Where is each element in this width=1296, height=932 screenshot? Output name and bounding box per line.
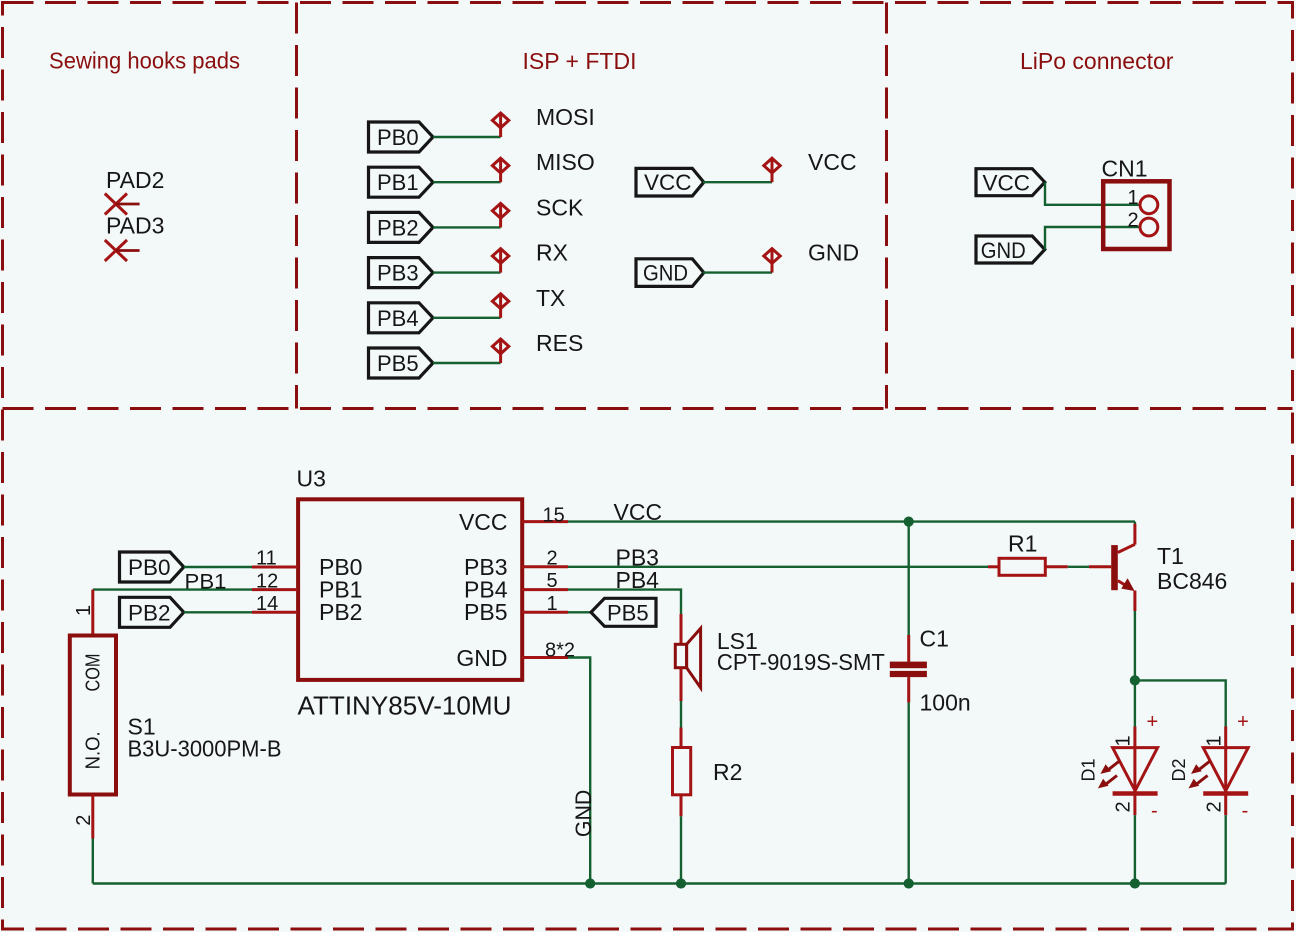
svg-text:+: + bbox=[1147, 711, 1159, 733]
divider horizontal bbox=[3, 407, 1293, 410]
svg-text:1: 1 bbox=[73, 605, 95, 616]
svg-text:VCC: VCC bbox=[808, 149, 857, 175]
svg-text:2: 2 bbox=[73, 815, 95, 826]
svg-text:14: 14 bbox=[256, 593, 278, 615]
wire RES bbox=[433, 362, 501, 364]
flag PB5 (left-pointing) bbox=[591, 598, 656, 626]
svg-text:ATTINY85V-10MU: ATTINY85V-10MU bbox=[298, 693, 512, 721]
U3 pin stub PB1 (12) bbox=[252, 588, 298, 591]
svg-text:GND: GND bbox=[643, 261, 688, 286]
svg-text:1: 1 bbox=[1203, 735, 1225, 746]
D2 emission arrow 2 bbox=[1189, 776, 1208, 789]
D2 bottom stub bbox=[1224, 794, 1227, 816]
wire PB0 bbox=[184, 566, 252, 568]
port pin MOSI bbox=[492, 113, 508, 137]
svg-text:1: 1 bbox=[1128, 187, 1139, 209]
svg-text:VCC: VCC bbox=[983, 171, 1031, 196]
D2 emission arrow 1 bbox=[1191, 761, 1210, 774]
svg-text:CPT-9019S-SMT: CPT-9019S-SMT bbox=[717, 649, 885, 675]
wire TX bbox=[433, 317, 501, 319]
D1 emission arrow 2 bbox=[1098, 776, 1117, 789]
wire D2 to rail bbox=[1224, 815, 1226, 883]
wire PB1 bbox=[93, 588, 252, 590]
resistor R1 bbox=[999, 558, 1045, 575]
wire PB2 bbox=[184, 611, 252, 613]
wire C1 top bbox=[908, 522, 910, 635]
CN1 pin 1 circle bbox=[1140, 196, 1158, 214]
wire R2 to ground rail bbox=[680, 816, 682, 883]
svg-text:SCK: SCK bbox=[536, 194, 584, 220]
wire MOSI bbox=[433, 136, 501, 138]
D2 triangle bbox=[1203, 748, 1248, 791]
wire D1 to rail bbox=[1134, 815, 1136, 883]
svg-text:VCC: VCC bbox=[459, 509, 508, 535]
svg-text:1: 1 bbox=[547, 593, 558, 615]
D2 cathode bar bbox=[1203, 791, 1248, 796]
svg-text:2: 2 bbox=[1128, 210, 1139, 232]
port pin RES bbox=[492, 339, 508, 363]
wire to D1 bbox=[1134, 680, 1136, 726]
svg-text:PB1: PB1 bbox=[377, 170, 419, 195]
port pin MISO bbox=[492, 158, 508, 182]
port pin SCK bbox=[492, 203, 508, 227]
svg-text:PB1: PB1 bbox=[185, 570, 227, 594]
resistor R2 bbox=[673, 748, 691, 795]
R1 left stub bbox=[988, 565, 999, 568]
D1 cathode bar bbox=[1113, 791, 1158, 796]
switch S1 pin 2 stub bbox=[91, 795, 94, 839]
svg-text:11: 11 bbox=[256, 548, 277, 570]
U3 pin stub PB3 (2) bbox=[522, 565, 568, 568]
wire to D2 branch bbox=[1135, 680, 1226, 726]
svg-text:N.O.: N.O. bbox=[82, 731, 105, 769]
svg-text:R2: R2 bbox=[713, 759, 742, 785]
switch S1 pin 1 stub bbox=[91, 590, 94, 636]
port pin VCC (ISP) bbox=[764, 158, 780, 182]
svg-text:PB2: PB2 bbox=[319, 599, 362, 625]
svg-text:+: + bbox=[1237, 711, 1249, 733]
svg-text:PAD2: PAD2 bbox=[106, 167, 164, 193]
R1 right stub bbox=[1045, 565, 1068, 568]
port pin GND (ISP) bbox=[764, 249, 780, 273]
divider vertical 1 bbox=[295, 3, 298, 409]
U3 pin stub PB0 (11) bbox=[252, 566, 298, 569]
T1 emitter bbox=[1118, 578, 1135, 611]
svg-text:PB3: PB3 bbox=[377, 261, 419, 286]
svg-text:PB0: PB0 bbox=[128, 555, 171, 580]
D2 top stub bbox=[1224, 727, 1227, 794]
svg-text:C1: C1 bbox=[920, 625, 949, 651]
T1 collector bbox=[1118, 522, 1135, 553]
flag PB0 (left) bbox=[120, 552, 184, 582]
flag PB5 (ISP) bbox=[369, 348, 434, 378]
junction LED branch bbox=[1130, 675, 1140, 685]
svg-text:LiPo connector: LiPo connector bbox=[1020, 48, 1174, 74]
junction R2/rail bbox=[676, 878, 686, 888]
C1 bottom stub bbox=[907, 677, 910, 703]
flag PB2 (left) bbox=[120, 597, 184, 627]
junction GND/rail bbox=[585, 878, 595, 888]
svg-text:5: 5 bbox=[547, 570, 558, 592]
flag GND (LiPo) bbox=[976, 236, 1045, 263]
wire C1 to ground rail bbox=[908, 703, 910, 884]
svg-text:PB5: PB5 bbox=[464, 599, 507, 625]
U3 pin stub GND (8*2) bbox=[522, 656, 568, 659]
wire GND net bbox=[568, 658, 590, 884]
svg-text:BC846: BC846 bbox=[1157, 568, 1227, 594]
U3 pin stub PB5 (1) bbox=[522, 611, 568, 614]
IC U3 box bbox=[298, 499, 522, 680]
svg-text:D2: D2 bbox=[1169, 758, 1189, 781]
junction D1/rail bbox=[1130, 878, 1140, 888]
svg-text:GND: GND bbox=[571, 790, 596, 838]
junction C1/rail bbox=[904, 878, 914, 888]
svg-text:CN1: CN1 bbox=[1102, 156, 1148, 182]
svg-text:-: - bbox=[1242, 800, 1249, 822]
wire MISO bbox=[433, 181, 501, 183]
svg-text:MOSI: MOSI bbox=[536, 104, 595, 130]
LS1 bottom stub bbox=[680, 668, 683, 701]
svg-text:PB4: PB4 bbox=[377, 306, 419, 331]
LED D2 bbox=[1169, 711, 1249, 884]
svg-text:PB0: PB0 bbox=[377, 125, 419, 150]
svg-text:2: 2 bbox=[1203, 801, 1225, 812]
flag VCC (LiPo) bbox=[976, 169, 1045, 196]
svg-text:-: - bbox=[1151, 800, 1158, 822]
svg-text:1: 1 bbox=[1113, 735, 1135, 746]
wire T1 emitter to LEDs bbox=[1134, 611, 1136, 680]
svg-text:GND: GND bbox=[808, 240, 859, 266]
svg-text:RES: RES bbox=[536, 330, 583, 356]
divider vertical 2 bbox=[885, 3, 888, 409]
CN1 pin 2 circle bbox=[1140, 218, 1158, 236]
svg-text:PB5: PB5 bbox=[607, 600, 649, 625]
svg-text:VCC: VCC bbox=[644, 170, 692, 195]
capacitor C1 plates bbox=[890, 662, 927, 678]
transistor T1 base bar bbox=[1111, 545, 1118, 590]
svg-text:PB2: PB2 bbox=[128, 600, 171, 625]
D1 triangle bbox=[1113, 748, 1158, 791]
svg-text:T1: T1 bbox=[1157, 543, 1184, 569]
connector CN1 box bbox=[1103, 181, 1169, 249]
svg-text:TX: TX bbox=[536, 285, 565, 311]
wire R1 to T1 base bbox=[1068, 566, 1089, 568]
svg-text:RX: RX bbox=[536, 240, 568, 266]
svg-text:ISP + FTDI: ISP + FTDI bbox=[523, 48, 637, 74]
svg-text:12: 12 bbox=[256, 570, 278, 592]
pad PAD3 bbox=[105, 240, 140, 261]
wire PB4 net bbox=[568, 590, 681, 614]
LED D1 bbox=[1079, 711, 1159, 889]
LS1 top stub bbox=[680, 614, 683, 644]
R2 top stub bbox=[680, 728, 683, 748]
D1 emission arrow 1 bbox=[1100, 761, 1119, 774]
svg-text:GND: GND bbox=[981, 238, 1026, 263]
T1 base stub bbox=[1089, 565, 1111, 568]
svg-text:COM: COM bbox=[82, 654, 105, 692]
flag PB2 (ISP) bbox=[369, 212, 434, 242]
switch S1 box bbox=[70, 636, 116, 795]
wire VCC (ISP) bbox=[703, 181, 772, 183]
U3 pin stub VCC (15) bbox=[522, 520, 568, 523]
port pin RX bbox=[492, 249, 508, 273]
wire VCC net bbox=[568, 520, 1135, 522]
C1 top stub bbox=[907, 635, 910, 662]
svg-text:GND: GND bbox=[456, 645, 507, 671]
U3 pin stub PB2 (14) bbox=[252, 611, 298, 614]
wire S1 to ground rail bbox=[92, 839, 94, 884]
wire PB3 net bbox=[568, 566, 988, 568]
svg-text:15: 15 bbox=[543, 504, 565, 526]
svg-text:D1: D1 bbox=[1079, 758, 1099, 781]
D1 top stub bbox=[1133, 727, 1136, 794]
wire GND (ISP) bbox=[703, 271, 772, 273]
svg-text:B3U-3000PM-B: B3U-3000PM-B bbox=[128, 736, 282, 762]
flag PB0 (ISP) bbox=[369, 122, 434, 152]
junction VCC/C1 bbox=[904, 517, 914, 527]
wire LS1 to R2 bbox=[680, 701, 682, 728]
D1 bottom stub bbox=[1133, 794, 1136, 816]
svg-text:PAD3: PAD3 bbox=[106, 213, 164, 239]
svg-text:MISO: MISO bbox=[536, 149, 595, 175]
svg-text:100n: 100n bbox=[920, 690, 971, 716]
wire VCC to CN1 pin1 bbox=[1045, 182, 1140, 205]
svg-text:R1: R1 bbox=[1008, 531, 1037, 557]
flag VCC (ISP) bbox=[636, 168, 704, 196]
wire RX bbox=[433, 271, 501, 273]
svg-text:VCC: VCC bbox=[614, 499, 663, 525]
svg-text:2: 2 bbox=[1113, 801, 1135, 812]
svg-text:Sewing hooks pads: Sewing hooks pads bbox=[49, 48, 240, 74]
flag PB1 (ISP) bbox=[369, 167, 434, 197]
flag PB4 (ISP) bbox=[369, 303, 434, 333]
svg-text:2: 2 bbox=[547, 548, 558, 570]
speaker LS1 bbox=[675, 628, 700, 687]
svg-text:U3: U3 bbox=[297, 466, 326, 492]
svg-text:PB5: PB5 bbox=[377, 351, 419, 376]
ground rail bbox=[93, 882, 1226, 884]
pad PAD2 bbox=[105, 194, 140, 215]
R2 bottom stub bbox=[680, 795, 683, 817]
svg-text:PB2: PB2 bbox=[377, 215, 419, 240]
wire GND to CN1 pin2 bbox=[1045, 227, 1140, 250]
flag PB3 (ISP) bbox=[369, 258, 434, 288]
port pin TX bbox=[492, 294, 508, 318]
wire PB5 bbox=[568, 611, 591, 613]
flag GND (ISP) bbox=[636, 259, 704, 287]
svg-text:PB4: PB4 bbox=[616, 567, 660, 593]
wire SCK bbox=[433, 226, 501, 228]
U3 pin stub PB4 (5) bbox=[522, 588, 568, 591]
